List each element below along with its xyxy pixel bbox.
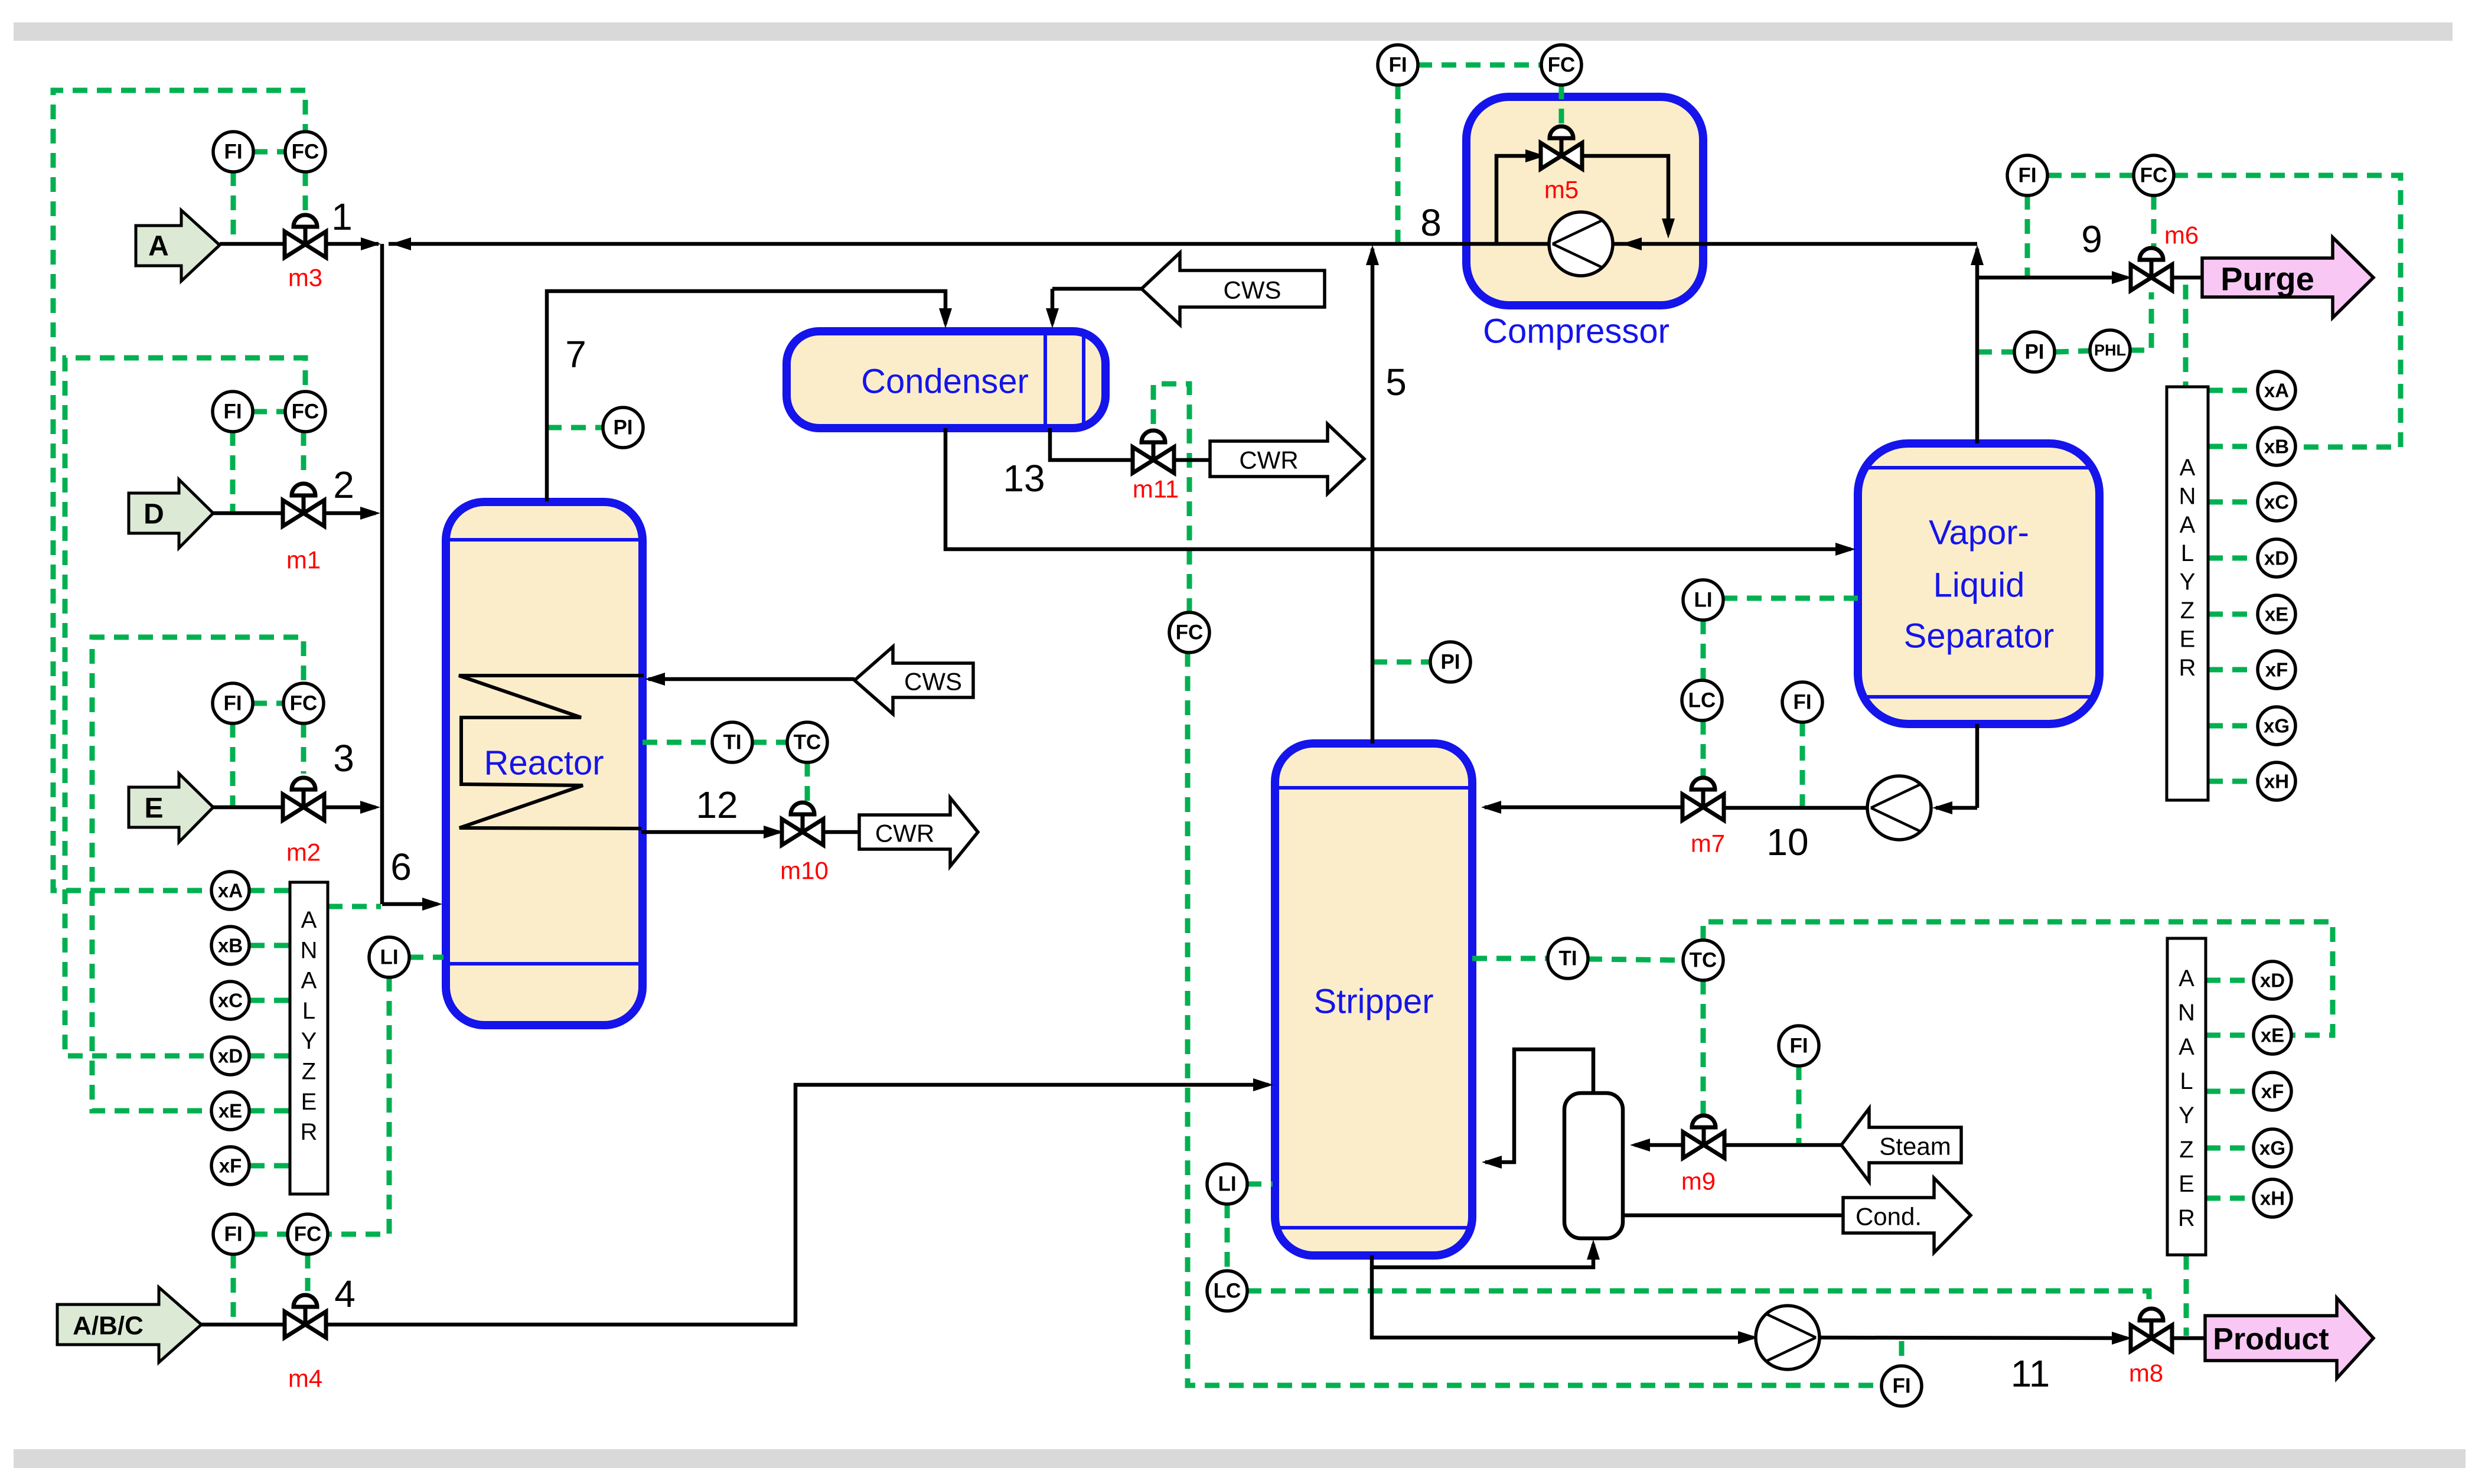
svg-text:LI: LI — [1694, 589, 1712, 612]
svg-text:FI: FI — [1388, 54, 1407, 77]
svg-text:m2: m2 — [286, 839, 321, 866]
svg-text:Cond.: Cond. — [1856, 1203, 1922, 1231]
svg-text:TC: TC — [1690, 949, 1717, 972]
svg-text:xE: xE — [219, 1100, 242, 1122]
svg-text:12: 12 — [696, 784, 738, 826]
svg-text:FI: FI — [223, 400, 242, 423]
svg-text:FC: FC — [1548, 54, 1576, 77]
svg-text:CWS: CWS — [1224, 276, 1281, 304]
svg-text:A: A — [2180, 512, 2196, 538]
svg-text:1: 1 — [331, 195, 353, 238]
svg-text:PI: PI — [613, 416, 632, 439]
svg-text:xB: xB — [2264, 436, 2289, 458]
svg-text:R: R — [301, 1119, 318, 1145]
svg-text:FI: FI — [1793, 691, 1811, 714]
svg-text:5: 5 — [1385, 361, 1407, 403]
svg-text:xG: xG — [2264, 715, 2290, 737]
svg-text:Z: Z — [302, 1059, 316, 1085]
svg-text:Compressor: Compressor — [1483, 312, 1669, 351]
svg-text:Steam: Steam — [1879, 1133, 1951, 1160]
svg-text:Y: Y — [2180, 569, 2196, 595]
svg-text:CWS: CWS — [904, 668, 962, 696]
svg-text:xD: xD — [2264, 547, 2289, 569]
svg-text:xC: xC — [2264, 491, 2289, 513]
svg-text:CWR: CWR — [875, 820, 934, 847]
svg-text:3: 3 — [333, 737, 354, 779]
svg-text:PHL: PHL — [2094, 341, 2126, 359]
svg-text:N: N — [301, 937, 318, 963]
svg-text:LC: LC — [1688, 689, 1716, 712]
svg-text:m11: m11 — [1133, 475, 1179, 503]
svg-text:FC: FC — [292, 400, 319, 423]
svg-text:R: R — [2178, 1205, 2195, 1231]
svg-text:xF: xF — [2265, 659, 2288, 681]
svg-text:4: 4 — [334, 1273, 356, 1315]
svg-text:A: A — [2179, 1034, 2194, 1060]
svg-text:FI: FI — [224, 141, 242, 164]
svg-text:E: E — [2179, 1171, 2194, 1197]
svg-text:A: A — [301, 907, 317, 933]
svg-text:A: A — [2179, 966, 2194, 991]
svg-text:FI: FI — [1789, 1035, 1808, 1058]
svg-text:xE: xE — [2265, 604, 2288, 625]
svg-text:m3: m3 — [288, 264, 322, 292]
svg-text:11: 11 — [2011, 1352, 2050, 1395]
svg-text:FC: FC — [2140, 164, 2168, 187]
svg-text:xB: xB — [218, 935, 243, 957]
svg-text:m6: m6 — [2164, 221, 2199, 249]
svg-text:E: E — [301, 1089, 317, 1115]
svg-text:6: 6 — [390, 846, 412, 888]
svg-text:Liquid: Liquid — [1933, 566, 2025, 605]
svg-text:Purge: Purge — [2220, 260, 2314, 298]
svg-text:xG: xG — [2259, 1137, 2285, 1159]
svg-text:Product: Product — [2213, 1322, 2329, 1356]
svg-text:m10: m10 — [780, 857, 829, 885]
svg-text:FI: FI — [2018, 164, 2036, 187]
svg-text:Z: Z — [2180, 598, 2194, 624]
svg-text:8: 8 — [1420, 201, 1442, 244]
svg-text:2: 2 — [333, 464, 354, 506]
svg-text:PI: PI — [1440, 651, 1460, 674]
svg-text:xD: xD — [218, 1045, 243, 1067]
svg-text:xC: xC — [218, 990, 243, 1012]
svg-text:Condenser: Condenser — [861, 363, 1029, 401]
svg-text:N: N — [2178, 1000, 2195, 1026]
svg-text:FI: FI — [223, 692, 242, 715]
svg-text:9: 9 — [2081, 218, 2102, 260]
svg-text:A/B/C: A/B/C — [73, 1312, 144, 1341]
svg-text:m4: m4 — [288, 1365, 322, 1392]
svg-text:N: N — [2179, 483, 2196, 509]
svg-text:FC: FC — [290, 692, 318, 715]
svg-text:xH: xH — [2260, 1188, 2285, 1209]
svg-text:PI: PI — [2024, 341, 2044, 364]
svg-text:m5: m5 — [1544, 176, 1579, 204]
svg-text:xD: xD — [2260, 970, 2285, 991]
svg-text:FI: FI — [224, 1223, 242, 1246]
svg-text:Y: Y — [2179, 1103, 2194, 1129]
svg-text:L: L — [302, 998, 315, 1024]
svg-text:m9: m9 — [1681, 1167, 1716, 1195]
svg-text:R: R — [2179, 655, 2196, 681]
svg-text:Y: Y — [301, 1028, 317, 1054]
svg-text:FC: FC — [292, 141, 319, 164]
svg-text:TI: TI — [1558, 947, 1577, 970]
svg-text:L: L — [2180, 1068, 2193, 1094]
svg-text:LC: LC — [1214, 1280, 1241, 1303]
svg-text:FC: FC — [1176, 621, 1204, 644]
svg-text:Z: Z — [2179, 1137, 2193, 1163]
svg-text:xA: xA — [2264, 380, 2289, 402]
svg-text:LI: LI — [1218, 1173, 1236, 1196]
svg-text:CWR: CWR — [1239, 446, 1298, 474]
svg-text:xA: xA — [218, 880, 243, 902]
svg-text:m7: m7 — [1691, 830, 1725, 857]
svg-text:7: 7 — [565, 333, 586, 376]
svg-text:Reactor: Reactor — [484, 744, 604, 782]
svg-text:Vapor-: Vapor- — [1929, 514, 2029, 552]
svg-text:TI: TI — [723, 731, 741, 754]
svg-text:FI: FI — [1892, 1375, 1910, 1398]
svg-text:FC: FC — [294, 1223, 322, 1246]
svg-text:D: D — [144, 499, 164, 530]
svg-text:E: E — [144, 793, 163, 824]
svg-text:m8: m8 — [2129, 1359, 2163, 1387]
svg-text:xE: xE — [2261, 1025, 2284, 1046]
svg-text:A: A — [301, 968, 317, 994]
svg-text:Stripper: Stripper — [1313, 983, 1433, 1021]
svg-text:m1: m1 — [286, 546, 321, 574]
svg-text:A: A — [148, 231, 169, 262]
svg-text:TC: TC — [794, 731, 821, 754]
svg-text:xF: xF — [2261, 1081, 2284, 1103]
svg-text:10: 10 — [1766, 821, 1808, 863]
svg-text:A: A — [2180, 455, 2196, 481]
svg-text:Separator: Separator — [1904, 617, 2055, 655]
svg-text:L: L — [2181, 540, 2194, 566]
svg-text:LI: LI — [380, 946, 398, 969]
svg-text:xF: xF — [219, 1155, 242, 1177]
svg-text:xH: xH — [2264, 771, 2289, 792]
svg-text:E: E — [2180, 626, 2196, 652]
svg-text:13: 13 — [1003, 457, 1045, 500]
